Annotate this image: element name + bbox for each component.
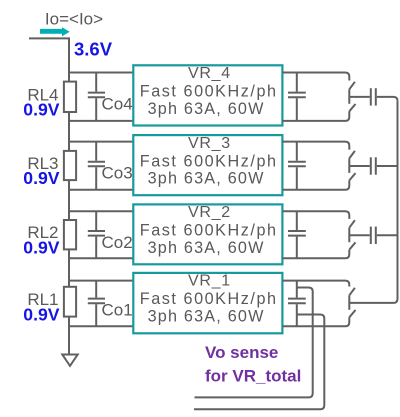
wire rail segment xyxy=(68,180,70,220)
wire coupling cap to sense bus xyxy=(377,234,398,236)
wire switch to VR_2 bottom output xyxy=(282,250,349,259)
svg-text:VR_4: VR_4 xyxy=(188,65,231,82)
coupling capacitor C3s xyxy=(370,157,372,174)
switch S3a (top blade) xyxy=(349,151,355,159)
svg-text:3.6V: 3.6V xyxy=(74,39,113,60)
wire switch common to coupling cap xyxy=(349,165,370,167)
svg-text:Co2: Co2 xyxy=(102,233,133,252)
svg-text:Vo sense: Vo sense xyxy=(205,343,278,362)
ground xyxy=(62,355,77,366)
svg-text:Co3: Co3 xyxy=(102,164,133,183)
wire rail to ground xyxy=(68,317,70,355)
svg-text:Io=<Io>: Io=<Io> xyxy=(45,10,103,29)
svg-text:VR_2: VR_2 xyxy=(188,204,231,221)
svg-text:Co4: Co4 xyxy=(102,95,133,114)
svg-text:0.9V: 0.9V xyxy=(23,304,59,324)
wire switch common segment xyxy=(348,158,350,173)
svg-text:VR_3: VR_3 xyxy=(188,135,231,152)
wire input feed xyxy=(29,38,69,81)
svg-text:0.9V: 0.9V xyxy=(23,168,59,188)
switch S1b (bottom blade) xyxy=(349,310,355,317)
svg-text:0.9V: 0.9V xyxy=(23,237,59,257)
svg-text:3ph 63A, 60W: 3ph 63A, 60W xyxy=(148,170,265,188)
wire coupling cap to sense bus xyxy=(377,97,398,101)
svg-text:for VR_total: for VR_total xyxy=(205,366,301,385)
capacitor Co1 xyxy=(95,281,97,298)
svg-text:Fast 600KHz/ph: Fast 600KHz/ph xyxy=(140,222,278,240)
wire switch common to coupling cap xyxy=(349,96,370,98)
wire VR_3 top output to switch xyxy=(282,142,349,150)
wire top rail to VR_1 xyxy=(69,280,133,282)
switch S2a (top blade) xyxy=(349,220,355,228)
wire switch to VR_1 bottom output xyxy=(282,317,349,326)
resistor RL1 xyxy=(64,287,76,317)
wire switch to VR_3 bottom output xyxy=(282,180,349,189)
switch S4b (bottom blade) xyxy=(349,104,355,111)
wire rail segment xyxy=(68,249,70,286)
wire top rail to VR_3 xyxy=(69,141,133,143)
svg-text:3ph 63A, 60W: 3ph 63A, 60W xyxy=(148,100,265,118)
capacitor Co3 xyxy=(95,142,97,161)
svg-text:Fast 600KHz/ph: Fast 600KHz/ph xyxy=(140,83,278,101)
svg-text:Co1: Co1 xyxy=(102,301,133,320)
wire sense bus xyxy=(349,101,397,303)
capacitor Co4 xyxy=(95,73,97,92)
wire switch common segment xyxy=(348,89,350,104)
svg-text:Fast 600KHz/ph: Fast 600KHz/ph xyxy=(140,152,278,170)
wire bottom rail to VR_1 xyxy=(69,325,133,327)
capacitor output VR_1 xyxy=(296,281,298,298)
wire switch common segment xyxy=(348,228,350,243)
wire Vo sense + xyxy=(195,288,313,398)
wire VR_4 top output to switch xyxy=(282,73,349,81)
VR module VR_2 xyxy=(133,204,282,264)
switch S4a (top blade) xyxy=(349,82,355,90)
resistor RL2 xyxy=(64,220,76,249)
VR module VR_4 xyxy=(133,65,282,126)
capacitor output VR_3 xyxy=(296,142,298,161)
wire switch common to coupling cap xyxy=(349,234,370,236)
VR module VR_3 xyxy=(133,135,282,195)
coupling capacitor C4s xyxy=(370,88,372,105)
wire Vo sense - xyxy=(194,315,324,410)
resistor RL4 xyxy=(64,82,76,112)
wire bottom rail to VR_2 xyxy=(69,257,133,259)
current arrow Io xyxy=(40,27,70,36)
VR module VR_1 xyxy=(133,273,282,334)
wire bottom rail to VR_4 xyxy=(69,120,133,122)
wire top rail to VR_4 xyxy=(69,72,133,74)
svg-text:3ph 63A, 60W: 3ph 63A, 60W xyxy=(148,308,265,326)
capacitor output VR_4 xyxy=(296,73,298,92)
svg-text:0.9V: 0.9V xyxy=(23,100,59,120)
wire switch common segment xyxy=(348,295,350,310)
resistor RL3 xyxy=(64,151,76,180)
wire coupling cap to sense bus xyxy=(377,165,398,167)
wire switch to VR_4 bottom output xyxy=(282,111,349,121)
switch S3b (bottom blade) xyxy=(349,173,355,180)
svg-text:Fast 600KHz/ph: Fast 600KHz/ph xyxy=(140,290,278,308)
svg-text:VR_1: VR_1 xyxy=(188,273,231,290)
capacitor Co2 xyxy=(95,211,97,230)
switch S2b (bottom blade) xyxy=(349,242,355,249)
wire top rail to VR_2 xyxy=(69,210,133,212)
wire VR_1 top output to switch xyxy=(282,281,349,287)
wire bottom rail to VR_3 xyxy=(69,189,133,191)
capacitor output VR_2 xyxy=(296,211,298,230)
svg-text:3ph 63A, 60W: 3ph 63A, 60W xyxy=(148,239,265,257)
switch S1a (top blade) xyxy=(349,288,355,296)
coupling capacitor C2s xyxy=(370,227,372,244)
wire rail segment xyxy=(68,112,70,151)
wire VR_2 top output to switch xyxy=(282,211,349,219)
